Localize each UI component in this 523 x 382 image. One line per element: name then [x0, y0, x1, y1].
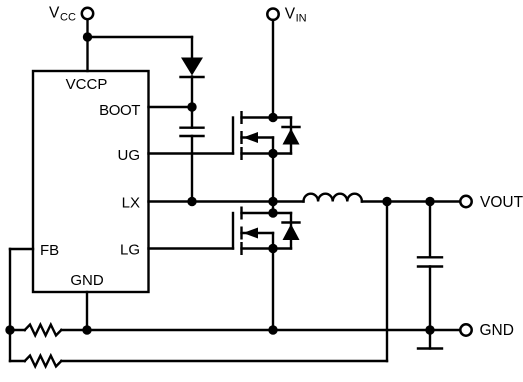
svg-text:VCCP: VCCP: [66, 76, 108, 93]
terminal VIN: [267, 9, 278, 20]
terminal GND: [460, 324, 471, 335]
body diode Q1: [273, 118, 300, 154]
node Q1 source: [268, 149, 277, 158]
svg-text:LX: LX: [122, 195, 140, 212]
wire LG pin: [149, 247, 234, 249]
wire BOOT pin: [149, 106, 193, 108]
body diode Q2: [273, 213, 300, 249]
svg-text:BOOT: BOOT: [99, 102, 140, 119]
ground rail: [87, 329, 460, 331]
resistor R1: [10, 325, 87, 336]
transistor Q1: [233, 112, 273, 159]
op-amp U1: [33, 71, 149, 292]
wire VOUT: [362, 200, 460, 202]
wire UG pin: [149, 152, 234, 154]
node FB tap: [382, 197, 391, 206]
node COUT ground junction: [425, 325, 434, 334]
capacitor C1 bootstrap: [181, 107, 204, 202]
svg-text:GND: GND: [480, 322, 514, 339]
svg-text:V: V: [49, 4, 60, 21]
node Q2 source: [268, 244, 277, 253]
node Q1 drain: [268, 113, 277, 122]
wire LX: [149, 200, 304, 202]
wire VCC to diode: [88, 36, 193, 38]
svg-text:UG: UG: [118, 147, 141, 164]
svg-text:GND: GND: [70, 272, 104, 289]
wire diode anode: [191, 37, 193, 58]
node GND pin junction: [82, 325, 91, 334]
capacitor COUT: [418, 202, 442, 331]
wire Q2 source to ground rail: [272, 249, 274, 331]
svg-text:FB: FB: [40, 242, 59, 259]
ground stub: [418, 330, 442, 349]
svg-text:V: V: [285, 6, 296, 23]
wire VIN to Q1 drain: [272, 20, 274, 118]
wire FB pin: [10, 248, 33, 250]
resistor R2: [10, 356, 387, 367]
node Q2 ground junction: [268, 325, 277, 334]
inductor L1: [304, 194, 362, 202]
terminal VOUT: [460, 196, 471, 207]
node VCC junction: [83, 32, 92, 41]
diode D1: [181, 58, 204, 78]
wire feedback to VOUT: [386, 202, 388, 362]
node BOOT junction: [187, 102, 196, 111]
wire FB left vertical: [9, 249, 11, 361]
terminal VCC: [82, 8, 93, 19]
node COUT top: [425, 197, 434, 206]
svg-text:CC: CC: [60, 11, 76, 23]
wire diode to BOOT: [191, 77, 193, 108]
wire GND pin: [86, 292, 88, 330]
transistor Q2: [233, 208, 273, 254]
node Q2 drain: [268, 208, 277, 217]
node LX junction: [268, 197, 277, 206]
wire VCC to VCCP pin: [86, 20, 88, 71]
node LX bootstrap junction: [187, 197, 196, 206]
wire Q1 source to Q2 drain: [272, 154, 274, 214]
svg-text:VOUT: VOUT: [480, 194, 523, 211]
svg-text:IN: IN: [296, 12, 307, 24]
svg-text:LG: LG: [120, 242, 140, 259]
node FB divider junction: [5, 325, 14, 334]
